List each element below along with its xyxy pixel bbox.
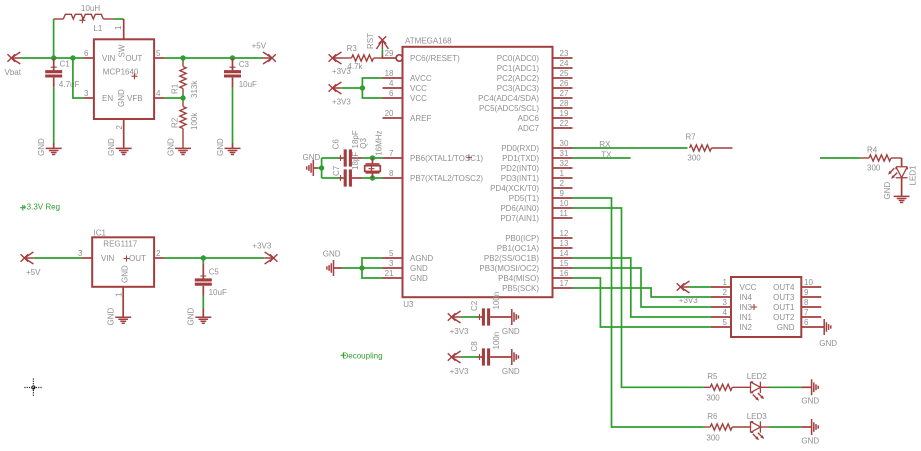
wire row xtal1 <box>322 157 344 159</box>
svg-text:VCC: VCC <box>740 283 757 292</box>
svg-text:VIN: VIN <box>102 54 116 63</box>
microcontroller U3 ATMEGA168 box <box>403 47 553 297</box>
junction EN tap <box>70 55 75 60</box>
svg-text:25: 25 <box>560 69 569 78</box>
pin 21 GND stub <box>383 277 403 279</box>
svg-text:14: 14 <box>560 249 569 258</box>
svg-text:5: 5 <box>723 318 728 327</box>
svg-text:1: 1 <box>560 169 565 178</box>
svg-text:300: 300 <box>706 434 720 443</box>
svg-text:Q3: Q3 <box>359 137 368 148</box>
svg-text:PC2(ADC2): PC2(ADC2) <box>497 74 540 83</box>
svg-text:OUT: OUT <box>129 254 146 263</box>
svg-text:SW: SW <box>118 44 127 57</box>
pin 1 GND stub <box>122 287 124 317</box>
wire OUT to +3V3 <box>165 257 265 259</box>
pin 2 IN4 stub <box>711 296 731 298</box>
wire PB4 to IN2 <box>573 278 712 327</box>
svg-text:+3V3: +3V3 <box>332 98 351 107</box>
svg-text:IC1: IC1 <box>94 228 107 237</box>
wire R4 corner to LED1 <box>901 158 903 167</box>
svg-text:100n: 100n <box>492 292 501 310</box>
svg-text:23: 23 <box>560 49 569 58</box>
svg-text:GND: GND <box>303 153 321 162</box>
svg-text:OUT3: OUT3 <box>773 293 795 302</box>
svg-text:29: 29 <box>385 49 394 58</box>
node +3V3 supply arrow (driver) <box>677 281 690 293</box>
pin 16 PB4 stub <box>553 277 573 279</box>
pin 5 IN2 stub <box>711 326 731 328</box>
svg-text:OUT1: OUT1 <box>773 303 795 312</box>
svg-text:GND: GND <box>106 308 115 326</box>
svg-text:22: 22 <box>560 119 569 128</box>
svg-text:16: 16 <box>560 269 569 278</box>
svg-text:GND: GND <box>502 327 520 336</box>
svg-text:OUT4: OUT4 <box>773 283 795 292</box>
pin 2 GND stub <box>123 119 125 148</box>
ground under C1 <box>46 148 62 154</box>
ground (LED2) <box>812 379 819 395</box>
capacitor C7 <box>338 169 363 186</box>
driver IC box <box>731 277 801 337</box>
svg-text:24: 24 <box>560 59 569 68</box>
svg-text:RST: RST <box>366 33 375 49</box>
capacitor C8 <box>477 348 512 365</box>
svg-text:MCP1640: MCP1640 <box>103 67 139 76</box>
svg-text:300: 300 <box>867 164 881 173</box>
pin 11 PD7 stub <box>553 217 573 219</box>
node +3V3 supply arrow (C2) <box>448 311 461 323</box>
ground under LED1 <box>894 196 910 202</box>
wire PB5 to IN4 <box>573 288 712 297</box>
svg-text:10uF: 10uF <box>239 80 257 89</box>
svg-text:LED1: LED1 <box>909 165 918 186</box>
svg-text:C6: C6 <box>332 139 341 150</box>
wire OUT node row <box>165 57 263 59</box>
svg-text:5: 5 <box>389 249 394 258</box>
svg-text:GND: GND <box>819 339 837 348</box>
pin 15 PB3 stub <box>553 267 573 269</box>
pin 24 PC1 stub <box>553 67 573 69</box>
svg-text:U3: U3 <box>403 300 414 309</box>
pin 10 OUT4 stub <box>801 286 821 288</box>
pin 4 IN1 stub <box>711 316 731 318</box>
svg-text:PC4(ADC4/SDA): PC4(ADC4/SDA) <box>478 94 539 103</box>
svg-text:ADC6: ADC6 <box>518 114 540 123</box>
svg-text:GND: GND <box>883 182 892 200</box>
svg-text:3: 3 <box>84 89 89 98</box>
capacitor C2 <box>477 308 512 325</box>
svg-text:GND: GND <box>777 323 795 332</box>
pin 7 PB6 stub <box>383 157 403 159</box>
pin 27 PC4 stub <box>553 97 573 99</box>
svg-text:AVCC: AVCC <box>410 74 432 83</box>
pin 26 PC3 stub <box>553 87 573 89</box>
resistor R3 <box>342 55 382 61</box>
capacitor C1 <box>45 58 62 87</box>
junction VFB node <box>180 95 185 100</box>
pin 9 OUT3 stub <box>801 296 821 298</box>
wire LED3 to gnd <box>770 426 802 428</box>
svg-text:VCC: VCC <box>410 94 427 103</box>
node +3V3 supply arrow (VCC) <box>329 82 342 94</box>
pin OUT stub 2 <box>154 257 164 259</box>
svg-text:PD1(TXD): PD1(TXD) <box>502 154 539 163</box>
pin 17 PB5 stub <box>553 287 573 289</box>
wire C7 to xtal <box>362 177 383 179</box>
svg-text:1: 1 <box>723 278 728 287</box>
svg-text:PB2(SS/OC1B): PB2(SS/OC1B) <box>484 254 539 263</box>
svg-text:OUT2: OUT2 <box>773 313 795 322</box>
LED LED2 <box>751 382 770 393</box>
svg-text:PB0(ICP): PB0(ICP) <box>505 234 539 243</box>
svg-text:R3: R3 <box>347 44 358 53</box>
svg-text:28: 28 <box>560 99 569 108</box>
pin 7 OUT2 stub <box>801 316 821 318</box>
pin 1 PD3 stub <box>553 177 573 179</box>
svg-text:LED3: LED3 <box>747 412 768 421</box>
wire +3V3 to C8 <box>461 356 478 358</box>
junction xtal2 <box>370 175 375 180</box>
svg-text:26: 26 <box>560 79 569 88</box>
svg-text:VIN: VIN <box>101 254 115 263</box>
svg-text:PD7(AIN1): PD7(AIN1) <box>500 214 539 223</box>
svg-text:IN1: IN1 <box>740 313 753 322</box>
svg-text:GND: GND <box>120 265 129 283</box>
wire RX net <box>573 147 688 149</box>
wire R3 to pin29 <box>382 57 383 59</box>
pin 8 OUT1 stub <box>801 306 821 308</box>
pin 20 AREF stub <box>383 117 403 119</box>
svg-text:21: 21 <box>385 269 394 278</box>
svg-text:7: 7 <box>804 308 809 317</box>
svg-text:GND: GND <box>186 308 195 326</box>
svg-text:13: 13 <box>560 239 569 248</box>
node +5V supply arrow (reg input) <box>21 252 34 264</box>
svg-text:ATMEGA168: ATMEGA168 <box>405 36 452 45</box>
svg-text:3: 3 <box>78 249 83 258</box>
svg-text:100n: 100n <box>492 332 501 350</box>
svg-text:GND: GND <box>801 397 819 406</box>
svg-text:300: 300 <box>687 154 701 163</box>
svg-text:4: 4 <box>156 89 161 98</box>
svg-text:ADC7: ADC7 <box>518 124 540 133</box>
svg-text:18: 18 <box>385 69 394 78</box>
svg-text:6: 6 <box>84 49 89 58</box>
svg-text:8: 8 <box>389 169 394 178</box>
pin 30 PD0 stub <box>553 147 573 149</box>
svg-text:+3.3V Reg: +3.3V Reg <box>22 203 60 212</box>
svg-text:PD3(INT1): PD3(INT1) <box>501 174 540 183</box>
wire L1 to SW <box>113 18 123 20</box>
svg-text:LED2: LED2 <box>747 372 768 381</box>
wire EN to VIN node <box>73 58 84 98</box>
svg-text:C1: C1 <box>60 60 71 69</box>
svg-text:+3V3: +3V3 <box>450 367 469 376</box>
ground (C8) <box>512 349 519 365</box>
svg-text:2: 2 <box>115 125 124 130</box>
node +3V3 supply arrow (C8) <box>448 351 461 363</box>
wire TX net <box>573 157 631 159</box>
junction xtal1 <box>370 155 375 160</box>
svg-text:R6: R6 <box>707 412 718 421</box>
ground (AGND) <box>327 260 334 276</box>
svg-text:C5: C5 <box>209 268 220 277</box>
svg-text:GND: GND <box>167 138 176 156</box>
pin 13 PB1 stub <box>553 247 573 249</box>
svg-text:GND: GND <box>410 274 428 283</box>
LED2 emission arrows <box>753 393 764 401</box>
wire agnd to pin3 <box>362 267 383 269</box>
svg-text:PB1(OC1A): PB1(OC1A) <box>497 244 540 253</box>
svg-text:10uF: 10uF <box>209 288 227 297</box>
resistor R6 <box>703 424 750 430</box>
ground (crystal) <box>307 160 314 176</box>
wire VCC vertical <box>362 78 382 98</box>
svg-text:PB4(MISO): PB4(MISO) <box>498 274 539 283</box>
svg-text:PB7(XTAL2/TOSC2): PB7(XTAL2/TOSC2) <box>410 174 483 183</box>
svg-text:C3: C3 <box>239 60 250 69</box>
wire L1 left leg <box>53 19 55 58</box>
svg-text:1: 1 <box>114 25 123 30</box>
pin 5 AGND stub <box>383 257 403 259</box>
wire PB2 to IN1 <box>573 258 712 317</box>
svg-text:GND: GND <box>323 250 341 259</box>
pin 12 PB0 stub <box>553 237 573 239</box>
node +3V3 supply arrow <box>264 252 277 264</box>
wire RST to pin29 net <box>381 49 383 59</box>
svg-text:IN4: IN4 <box>740 293 753 302</box>
wire row xtal2 <box>322 177 344 179</box>
svg-text:2: 2 <box>723 288 728 297</box>
svg-text:VFB: VFB <box>127 94 143 103</box>
U3 origin cross <box>466 155 472 161</box>
pin 9 PD5 stub <box>553 197 573 199</box>
svg-text:REG1117: REG1117 <box>103 240 137 249</box>
svg-text:PB3(MOSI/OC2): PB3(MOSI/OC2) <box>479 264 539 273</box>
svg-text:11: 11 <box>560 209 569 218</box>
svg-text:GND: GND <box>502 367 520 376</box>
resistor R1 <box>180 58 186 98</box>
svg-text:10: 10 <box>804 278 813 287</box>
wire Vbat to VIN <box>21 57 84 59</box>
ground under IC1 <box>115 317 131 323</box>
resistor R2 <box>180 98 186 148</box>
svg-text:18pF: 18pF <box>351 152 360 170</box>
pin 2 PD4 stub <box>553 187 573 189</box>
wire PB3 to IN3 <box>573 268 712 307</box>
svg-text:C8: C8 <box>470 341 479 352</box>
svg-text:R7: R7 <box>685 133 696 142</box>
svg-text:GND: GND <box>107 138 116 156</box>
wire gnd to xtal node <box>313 167 321 169</box>
wire TX branch to R4 <box>820 157 861 159</box>
op-amp IC MCP1640 box <box>94 39 154 119</box>
svg-text:AREF: AREF <box>410 114 431 123</box>
svg-text:3: 3 <box>389 259 394 268</box>
junction C5 node <box>201 255 206 260</box>
pin VFB stub 4 <box>154 97 165 99</box>
junction R1 top <box>180 55 185 60</box>
svg-text:GND: GND <box>801 437 819 446</box>
L1 origin cross <box>79 17 85 23</box>
svg-text:R5: R5 <box>707 372 718 381</box>
pin 25 PC2 stub <box>553 77 573 79</box>
svg-text:PB6(XTAL1/TOSC1): PB6(XTAL1/TOSC1) <box>410 154 483 163</box>
pin 14 PB2 stub <box>553 257 573 259</box>
svg-text:30: 30 <box>560 139 569 148</box>
ground (driver pin6) <box>824 319 831 335</box>
svg-text:32: 32 <box>560 159 569 168</box>
svg-text:313k: 313k <box>190 80 199 98</box>
wire xtal gnd vertical <box>321 158 323 178</box>
svg-text:Vbat: Vbat <box>5 68 22 77</box>
ground under C5 <box>195 317 211 323</box>
svg-text:PC0(ADC0): PC0(ADC0) <box>497 54 540 63</box>
LED LED3 <box>751 421 770 432</box>
pin 1 SW stub <box>123 19 125 39</box>
junction C3 top <box>230 55 235 60</box>
wire C5 to GND <box>202 296 204 309</box>
crystal Q3 <box>365 158 381 178</box>
svg-text:5: 5 <box>156 49 161 58</box>
svg-text:TX: TX <box>601 151 612 160</box>
svg-text:31: 31 <box>560 149 569 158</box>
ground under R2 <box>175 148 191 154</box>
pin 3 GND stub <box>383 267 403 269</box>
wire +3V3 to VCC pins <box>342 87 363 89</box>
junction C1 node <box>51 55 56 60</box>
svg-text:C2: C2 <box>470 300 479 311</box>
svg-text:C7: C7 <box>332 165 341 176</box>
wire PD5 to LED3 <box>573 198 704 427</box>
wire gnd to agnd node <box>334 267 363 269</box>
svg-text:PD0(RXD): PD0(RXD) <box>501 144 539 153</box>
wire +5V to VIN <box>34 257 82 259</box>
ground (C2) <box>512 309 519 325</box>
ground under C3 <box>225 148 241 154</box>
IC1 origin cross <box>124 256 130 262</box>
junction agnd <box>359 265 364 270</box>
svg-text:2: 2 <box>560 179 565 188</box>
svg-text:PC5(ADC5/SCL): PC5(ADC5/SCL) <box>479 104 539 113</box>
pin 28 PC5 stub <box>553 107 573 109</box>
svg-text:4: 4 <box>723 308 728 317</box>
junction VCC node <box>360 85 365 90</box>
capacitor C6 <box>338 149 363 166</box>
svg-text:AGND: AGND <box>410 254 433 263</box>
pin EN stub 3 <box>83 97 94 99</box>
wire +3V3 to C2 <box>461 316 478 318</box>
svg-text:EN: EN <box>102 94 113 103</box>
pin 6 VCC stub <box>383 97 403 99</box>
svg-text:+5V: +5V <box>252 41 267 50</box>
svg-text:R4: R4 <box>867 145 878 154</box>
regulator IC1 box <box>92 237 154 286</box>
pin OUT stub 5 <box>154 57 165 59</box>
sheet origin mark <box>24 379 42 397</box>
svg-text:19: 19 <box>560 109 569 118</box>
MCP1640 origin cross <box>132 73 138 79</box>
svg-text:+5V: +5V <box>26 268 41 277</box>
wire LED2 to gnd <box>770 386 802 388</box>
node RST supply arrow <box>376 36 388 49</box>
ground (LED3) <box>812 419 819 435</box>
svg-text:16MHz: 16MHz <box>375 130 384 155</box>
svg-text:PD6(AIN0): PD6(AIN0) <box>500 204 539 213</box>
svg-text:VCC: VCC <box>410 84 427 93</box>
svg-text:17: 17 <box>560 279 569 288</box>
pin 31 PD1 stub <box>553 157 573 159</box>
svg-text:6: 6 <box>804 318 809 327</box>
wire C3 to GND <box>232 87 234 143</box>
svg-text:OUT: OUT <box>125 54 142 63</box>
svg-text:10uH: 10uH <box>81 4 100 13</box>
resistor R7 <box>690 145 733 151</box>
svg-text:4.7uF: 4.7uF <box>59 80 80 89</box>
svg-text:IN2: IN2 <box>740 323 753 332</box>
svg-text:Decoupling: Decoupling <box>343 352 383 361</box>
svg-text:PB5(SCK): PB5(SCK) <box>502 284 539 293</box>
svg-text:+3V3: +3V3 <box>450 327 469 336</box>
pin 6 GND stub <box>801 326 824 328</box>
driver origin cross <box>751 304 757 310</box>
svg-text:PC1(ADC1): PC1(ADC1) <box>497 64 540 73</box>
svg-text:RX: RX <box>599 140 611 149</box>
svg-text:PD5(T1): PD5(T1) <box>509 194 540 203</box>
svg-text:3: 3 <box>723 298 728 307</box>
svg-text:2: 2 <box>156 249 161 258</box>
svg-text:GND: GND <box>37 138 46 156</box>
svg-text:1: 1 <box>115 292 124 297</box>
pin 32 PD2 stub <box>553 167 573 169</box>
ground under MCP pin2 <box>116 148 132 154</box>
pin 18 AVCC stub <box>383 77 403 79</box>
svg-text:GND: GND <box>216 138 225 156</box>
node +3V3 supply arrow (reset pullup) <box>329 52 342 64</box>
pin 3 IN3 stub <box>711 306 731 308</box>
svg-text:300: 300 <box>706 393 720 402</box>
node +5V supply arrow <box>263 52 276 64</box>
svg-text:27: 27 <box>560 89 569 98</box>
svg-text:PC3(ADC3): PC3(ADC3) <box>497 84 540 93</box>
svg-text:20: 20 <box>385 109 394 118</box>
svg-text:12: 12 <box>560 229 569 238</box>
resistor R4 <box>861 155 902 161</box>
LED LED1 <box>896 167 908 196</box>
wire VFB row <box>165 97 183 99</box>
svg-text:R1: R1 <box>170 83 179 94</box>
svg-text:10: 10 <box>560 199 569 208</box>
svg-text:PD4(XCK/T0): PD4(XCK/T0) <box>490 184 539 193</box>
svg-text:9: 9 <box>560 189 565 198</box>
pin VIN stub 6 <box>83 57 94 59</box>
svg-text:PC6(/RESET): PC6(/RESET) <box>410 54 460 63</box>
pin 22 ADC7 stub <box>553 127 573 129</box>
svg-text:4: 4 <box>389 79 394 88</box>
pin 10 PD6 stub <box>553 207 573 209</box>
svg-text:+3V3: +3V3 <box>252 242 271 251</box>
pin 4 VCC stub <box>383 87 403 89</box>
capacitor C5 <box>195 258 212 296</box>
svg-text:15: 15 <box>560 259 569 268</box>
text Decoupling <box>341 352 383 361</box>
pin 1 VCC stub <box>711 286 731 288</box>
svg-text:4.7k: 4.7k <box>347 62 363 71</box>
wire +3V3 to VCC pin1 <box>690 286 711 288</box>
wire C1 to GND <box>53 87 55 143</box>
resistor R5 <box>703 384 750 390</box>
